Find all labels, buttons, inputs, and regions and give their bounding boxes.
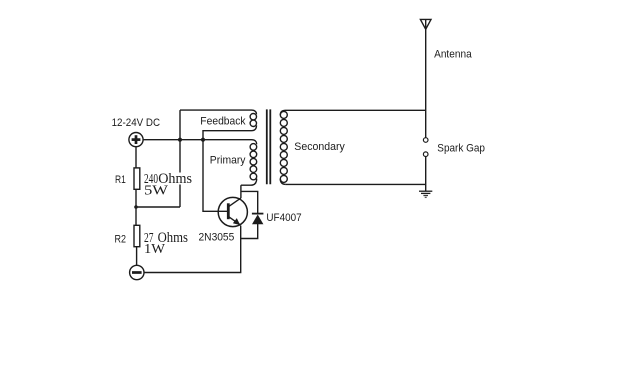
wire base node to transistor base (203, 140, 228, 212)
antenna symbol (420, 19, 431, 29)
junction dot R1-R2 node (134, 205, 138, 209)
transformer T1 primary winding (241, 144, 257, 186)
wire secondary bottom to ground line (286, 183, 426, 185)
transformer T1 secondary winding (280, 110, 290, 184)
wire R2 bottom to negative terminal (136, 247, 138, 266)
diode D1 UF4007 (252, 214, 264, 225)
wire R1 bottom to R2 top (135, 189, 137, 225)
wire negative terminal to emitter (144, 239, 241, 273)
wire vertical bias rail x180 (feedback top to R1-R2 node) (179, 110, 181, 207)
svg-text:R2: R2 (115, 233, 127, 245)
resistor R1 (134, 168, 140, 189)
value label 240Ohms 5W (144, 171, 192, 199)
svg-text:R1: R1 (115, 174, 126, 186)
svg-text:Feedback: Feedback (200, 116, 246, 128)
ground (419, 191, 432, 197)
wire secondary top to antenna line (290, 109, 426, 111)
svg-text:1W: 1W (144, 242, 166, 257)
wire collector to primary bottom (240, 185, 242, 198)
svg-text:5W: 5W (144, 184, 169, 199)
wire +V rail to primary top (143, 140, 257, 145)
svg-text:Spark Gap: Spark Gap (437, 143, 485, 155)
wire emitter down (240, 226, 242, 239)
svg-text:UF4007: UF4007 (266, 212, 301, 224)
transformer core (267, 109, 271, 184)
spark gap (423, 138, 428, 157)
svg-text:2N3055: 2N3055 (199, 232, 235, 244)
svg-text:Secondary: Secondary (294, 141, 345, 153)
transformer T1 feedback winding (180, 110, 257, 140)
resistor R2 (134, 225, 140, 246)
wire diode cathode branch (241, 191, 258, 213)
svg-text:Antenna: Antenna (434, 49, 472, 61)
svg-text:12-24V DC: 12-24V DC (112, 117, 161, 129)
svg-text:Primary: Primary (210, 155, 246, 167)
wire spark gap to ground (425, 157, 427, 192)
battery positive terminal + (129, 133, 143, 147)
wire antenna to spark gap (425, 29, 427, 137)
junction dot base node (201, 138, 205, 142)
wire + terminal to R1 top (135, 147, 137, 168)
transistor Q1 (218, 197, 247, 226)
wire diode anode to emitter (241, 224, 258, 239)
junction dot bias rail crossing (178, 138, 182, 142)
battery negative terminal - (130, 265, 144, 279)
wire R1-R2 node branch to feedback rail (136, 206, 180, 208)
value label 27 Ohms 1W (144, 230, 188, 257)
